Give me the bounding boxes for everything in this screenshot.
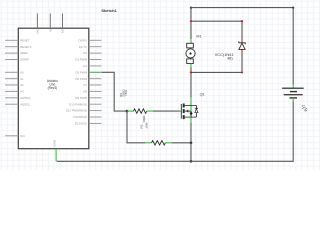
wire motor to node bbox=[190, 68, 192, 73]
svg-text:VIN: VIN bbox=[61, 29, 64, 33]
svg-text:D9 PWM: D9 PWM bbox=[75, 96, 87, 100]
transistor Q1 bbox=[181, 93, 204, 119]
pin GND green bbox=[55, 149, 57, 162]
wire motor column top bbox=[190, 8, 192, 40]
wire ground rail bbox=[57, 102, 294, 162]
battery V1 bbox=[282, 85, 308, 112]
arduino U1 body bbox=[18, 28, 89, 149]
svg-text:D4: D4 bbox=[83, 64, 87, 68]
background grid bbox=[0, 0, 320, 170]
svg-text:Q1: Q1 bbox=[200, 93, 205, 97]
svg-text:±5%: ±5% bbox=[124, 90, 128, 96]
node top rail corner bbox=[190, 7, 192, 9]
svg-text:D6 PWM: D6 PWM bbox=[75, 77, 87, 81]
node top right corner bbox=[292, 7, 294, 9]
svg-text:±5%: ±5% bbox=[145, 122, 149, 128]
svg-text:D1/TX: D1/TX bbox=[79, 45, 87, 49]
svg-text:D8: D8 bbox=[83, 90, 87, 94]
svg-text:(Rev3): (Rev3) bbox=[48, 86, 58, 90]
svg-text:5V: 5V bbox=[49, 29, 52, 32]
svg-text:D3 PWM: D3 PWM bbox=[75, 58, 87, 62]
svg-text:10kΩ: 10kΩ bbox=[142, 115, 146, 123]
motor M1 bbox=[186, 35, 202, 68]
wire gate node down to R1 bbox=[127, 111, 145, 143]
svg-text:A5/SCL: A5/SCL bbox=[20, 102, 30, 106]
wire drain-source leads green bbox=[190, 98, 192, 123]
pin D5 green bbox=[89, 71, 102, 73]
svg-text:48): 48) bbox=[227, 56, 233, 61]
svg-text:A1: A1 bbox=[20, 77, 24, 81]
svg-text:D0/RX: D0/RX bbox=[78, 38, 87, 42]
left pins bbox=[5, 40, 18, 136]
left pin labels bbox=[20, 38, 32, 137]
wire R1 to source node bbox=[172, 142, 191, 144]
wire drain to motor node bbox=[190, 72, 192, 97]
svg-text:A0: A0 bbox=[20, 70, 24, 74]
node ground rail junction bbox=[190, 160, 193, 163]
svg-text:M1: M1 bbox=[196, 35, 201, 39]
svg-text:RESET2: RESET2 bbox=[20, 45, 32, 49]
wire second rail bbox=[191, 21, 242, 40]
svg-text:9V: 9V bbox=[304, 107, 308, 112]
svg-text:D10 PWM/SS: D10 PWM/SS bbox=[69, 102, 87, 106]
wire top rail bbox=[191, 8, 293, 85]
pin VIN bbox=[62, 14, 64, 29]
svg-text:N/C: N/C bbox=[20, 134, 25, 138]
node diode bottom red bbox=[241, 71, 243, 73]
arduino U1 bbox=[5, 14, 102, 162]
svg-text:RESET: RESET bbox=[20, 38, 30, 42]
svg-text:R1: R1 bbox=[140, 124, 144, 128]
svg-text:A4/SDA: A4/SDA bbox=[20, 96, 30, 100]
svg-text:A2: A2 bbox=[20, 83, 24, 87]
right pins bbox=[89, 40, 102, 123]
wire D5 to gate node bbox=[102, 72, 127, 111]
wire source to R1 node bbox=[190, 123, 192, 143]
svg-text:AREF: AREF bbox=[20, 51, 28, 55]
node motor bottom red bbox=[190, 71, 192, 73]
svg-text:D5 PWM: D5 PWM bbox=[75, 70, 87, 74]
svg-text:D13/SCK: D13/SCK bbox=[75, 122, 87, 126]
node gate junction bbox=[126, 110, 129, 113]
wire R2 to gate bbox=[153, 110, 180, 112]
resistor R1 bbox=[140, 115, 173, 145]
svg-text:D12/MISO: D12/MISO bbox=[74, 115, 88, 119]
diode D1 bbox=[215, 40, 246, 72]
svg-text:3V3: 3V3 bbox=[36, 29, 39, 34]
wire motor node to diode bottom bbox=[191, 71, 242, 73]
svg-text:D2: D2 bbox=[83, 51, 87, 55]
right pin labels bbox=[66, 38, 88, 125]
svg-text:Sketch1: Sketch1 bbox=[101, 8, 117, 13]
node diode top red bbox=[241, 20, 243, 22]
wire source node to ground rail bbox=[190, 143, 192, 162]
resistor R2 bbox=[119, 89, 153, 114]
pin 3V3 bbox=[36, 14, 38, 29]
svg-text:A3: A3 bbox=[20, 90, 24, 94]
node R1-source junction bbox=[190, 142, 193, 145]
pin 5V bbox=[49, 14, 51, 29]
svg-text:D11 PWM/MOSI: D11 PWM/MOSI bbox=[66, 109, 87, 113]
svg-text:D7: D7 bbox=[83, 83, 87, 87]
svg-text:IOREF: IOREF bbox=[20, 58, 29, 62]
svg-text:GND: GND bbox=[52, 140, 56, 146]
node motor top junction red bbox=[190, 20, 192, 22]
